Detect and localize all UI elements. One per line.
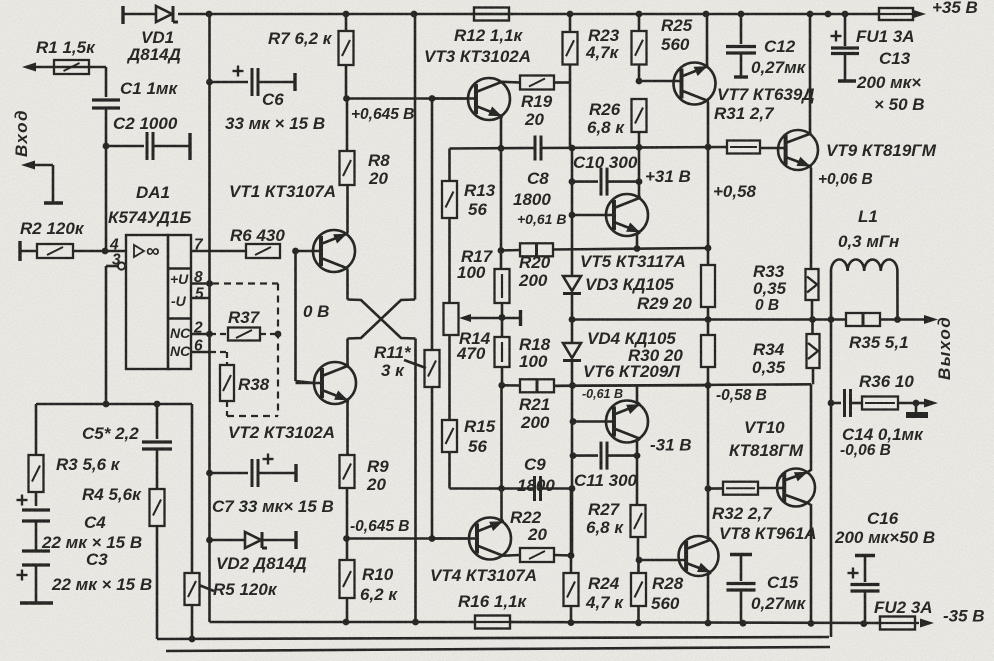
resistor R19 — [520, 65, 570, 130]
wire main vertical x=415 — [414, 14, 417, 622]
capacitor C15 — [727, 555, 807, 623]
resistor R9 — [340, 455, 390, 539]
capacitor C10 — [569, 147, 643, 195]
capacitor C5 — [82, 404, 172, 489]
wire DA1 supply line vertical — [206, 14, 213, 622]
wire base line VT1-VT2 — [294, 251, 297, 381]
diode VD3 — [563, 275, 674, 294]
transistor VT8 — [639, 489, 817, 623]
resistor R26 — [587, 99, 647, 147]
capacitor C6 — [210, 66, 326, 134]
capacitor C14 — [831, 389, 924, 459]
transistor VT9 — [760, 14, 937, 170]
wire R20 node to R29 — [705, 245, 712, 252]
capacitor C12 — [726, 14, 807, 77]
resistor R3 — [29, 404, 121, 506]
pin 6 — [191, 338, 210, 355]
diode VD4 — [563, 329, 676, 361]
resistor R33 — [753, 168, 819, 320]
fuse FU2 — [874, 598, 934, 630]
junction VT7 base — [636, 78, 643, 85]
junction R2/pin4 — [102, 248, 109, 255]
resistor R8 — [340, 151, 391, 188]
resistor R36 — [859, 372, 938, 410]
resistor R6 — [230, 226, 285, 258]
capacitor C3 — [17, 521, 153, 603]
node +35V — [932, 0, 978, 17]
diode VD1 — [126, 6, 181, 64]
junction R5 bottom — [189, 636, 196, 643]
resistor R15 — [442, 417, 496, 489]
pin 5 — [191, 286, 210, 303]
pin 8 — [191, 269, 210, 286]
resistor R20 — [501, 243, 710, 290]
resistor R14 trimmer — [444, 303, 521, 420]
capacitor C8 — [513, 136, 566, 228]
capacitor C4 — [17, 495, 143, 553]
junction C2/C1 — [103, 143, 110, 150]
inductor L1 — [831, 207, 901, 323]
capacitor C13 — [831, 15, 925, 114]
wire x=571 lower column — [568, 489, 575, 574]
resistor R31 — [714, 104, 775, 154]
resistor R30 — [628, 320, 715, 386]
junction VT1 base — [292, 248, 299, 255]
capacitor C9 — [450, 455, 576, 501]
wire +35V top rail — [123, 6, 921, 24]
transistor VT4 — [430, 489, 537, 586]
capacitor C7 — [210, 454, 334, 517]
transistor VT10 — [729, 384, 815, 622]
transistor VT2 — [228, 339, 356, 456]
capacitor C16 — [834, 509, 935, 623]
wire output common x=831 — [828, 320, 835, 638]
wire R9/R10 node -0.645V — [343, 518, 469, 542]
resistor R34 — [752, 320, 820, 385]
resistor R23 — [563, 14, 620, 65]
transistor VT3 — [424, 47, 531, 149]
transistor VT1 — [229, 182, 355, 300]
label VT7 — [717, 85, 815, 104]
capacitor C1 — [92, 67, 178, 146]
wire bottom return rail — [157, 637, 829, 639]
wire input ground lead — [21, 161, 63, 204]
wire driver column x=708 — [705, 385, 712, 492]
resistor R37 — [210, 308, 281, 341]
resistor R27 — [586, 500, 646, 560]
transistor VT6 — [573, 386, 648, 456]
wire VT3 collector node y=147 — [450, 144, 728, 152]
wire dashed box — [212, 284, 278, 417]
resistor R18 — [495, 335, 551, 371]
junction VT8 base — [636, 557, 643, 564]
resistor R2 — [20, 219, 126, 261]
wire pin3 feedback down — [105, 266, 108, 404]
resistor R38 — [210, 352, 270, 416]
junction dots bottom rail — [343, 619, 868, 627]
pin 3 — [106, 252, 125, 270]
resistor R21 — [502, 379, 710, 432]
resistor R17 — [457, 247, 510, 303]
fuse FU1 — [856, 8, 926, 46]
wire emitter cross — [348, 300, 416, 339]
resistor R35 — [846, 313, 909, 352]
wire R14 wiper crossing — [499, 314, 506, 321]
junction dots on +35V rail — [206, 11, 849, 18]
wire bias column x=572 — [569, 83, 577, 557]
transistor VT7 — [639, 14, 716, 147]
wire VT3 emitter column — [498, 149, 506, 489]
resistor R24 — [564, 573, 625, 623]
pin 4 — [109, 237, 119, 254]
resistor R16 — [458, 592, 528, 629]
resistor R32 — [708, 482, 777, 523]
diode VD2 — [210, 531, 307, 573]
resistor R29 — [637, 147, 715, 320]
op-amp DA1 К574УД1Б — [108, 183, 191, 369]
resistor R10 — [340, 539, 399, 623]
wire mid output rail 0V — [572, 315, 938, 324]
resistor R7 — [268, 14, 354, 99]
pin 7 — [191, 237, 246, 254]
resistor R11 — [374, 99, 440, 539]
wire y=385 rail — [554, 382, 811, 389]
wire C1 to R2 node — [105, 146, 108, 251]
transistor VT5 — [572, 182, 686, 271]
resistor R12 — [454, 8, 524, 46]
wire R7/R8 node +0.645V — [343, 95, 468, 151]
resistor R13 — [442, 149, 496, 304]
resistor R4 — [82, 485, 165, 639]
wire -35V bottom rail — [210, 622, 881, 623]
capacitor C2 — [106, 114, 190, 160]
wire feedback node y=404 — [36, 401, 192, 408]
resistor R5 — [185, 404, 278, 639]
capacitor C11 — [573, 442, 640, 490]
pin 2 — [191, 320, 210, 337]
wire frame bottom — [166, 647, 830, 651]
resistor R22 — [510, 508, 571, 562]
ground — [906, 403, 928, 415]
resistor R25 — [632, 14, 693, 81]
resistor R1 — [36, 38, 96, 74]
node Вход input — [12, 63, 106, 158]
resistor R28 — [631, 560, 684, 623]
wire VT6 collector column — [636, 456, 639, 505]
